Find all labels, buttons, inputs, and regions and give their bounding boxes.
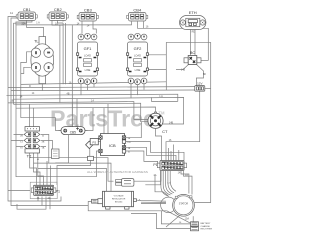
svg-text:4A: 4A	[48, 197, 51, 200]
svg-text:T2: T2	[27, 154, 32, 159]
wire corner step right	[152, 97, 178, 101]
wire ETH pin drop to BC	[190, 27, 192, 56]
wire ICB right pins to P1	[126, 122, 184, 165]
svg-text:RD: RD	[192, 31, 196, 34]
wire bus b6	[8, 102, 148, 120]
svg-text:CB1: CB1	[23, 7, 32, 12]
wire engine bottom drop	[192, 216, 194, 222]
svg-text:A: A	[37, 157, 39, 161]
svg-text:2B: 2B	[11, 99, 14, 102]
plug above voltage regulator	[116, 179, 134, 187]
current transformer CT	[148, 112, 163, 128]
voltage regulator left arm plug	[92, 199, 103, 204]
wire long run CB4 to left rail 4 big loop	[16, 22, 132, 177]
wire CB1 pin3 down	[16, 21, 32, 25]
svg-text:D: D	[29, 85, 31, 88]
wire bundle P1 to engine	[161, 171, 176, 196]
wire T2 right stubs	[41, 135, 53, 164]
engine terminal housing ETH	[180, 16, 206, 30]
wire bus b3 to 12V	[11, 89, 195, 92]
wire VR right tab leads to rotor	[137, 200, 167, 203]
wire P2 extra feeds	[47, 161, 51, 185]
wire from CB1 left tab to left rail down to bottom	[8, 17, 61, 202]
svg-text:LOAD: LOAD	[134, 53, 141, 57]
wire ICB top feeds	[104, 104, 108, 134]
wire diagonal to BCR	[167, 211, 191, 223]
svg-text:1 A: 1 A	[159, 95, 163, 98]
svg-text:4A: 4A	[154, 174, 157, 177]
voltage regulator VR	[103, 191, 137, 209]
svg-text:A: A	[139, 198, 141, 202]
wire bus b8 to CT top	[16, 107, 156, 113]
wire rail x60	[59, 25, 61, 103]
GFCI receptacle GF2	[127, 33, 149, 84]
idle control board ICB	[99, 134, 126, 156]
wire diamond bottom to small box	[89, 149, 91, 157]
GFCI receptacle GF1	[77, 33, 99, 84]
svg-text:LOAD: LOAD	[84, 53, 91, 57]
wire diagonal cross under engine	[166, 211, 185, 227]
label battery charge rectifier	[201, 222, 213, 231]
wire P2 left lead	[8, 190, 30, 192]
wire P1 feeds	[169, 145, 179, 161]
svg-text:VOLTAGE: VOLTAGE	[114, 195, 125, 198]
connector P2 mounting frame	[30, 182, 57, 198]
circuit breaker CB4	[127, 13, 148, 22]
twist lock receptacle TL	[31, 37, 54, 84]
svg-text:GF2: GF2	[134, 46, 143, 51]
wire P1 left bottom exit	[145, 171, 160, 185]
svg-text:BATTERY: BATTERY	[201, 222, 211, 225]
svg-text:P1: P1	[153, 163, 157, 167]
wire TL top feed	[27, 22, 44, 37]
wire CB3 pin1 to GF1 prong	[81, 22, 83, 34]
battery charge rectifier plug 1	[191, 222, 199, 226]
svg-text:CT: CT	[162, 129, 168, 134]
connector P1	[157, 161, 186, 171]
svg-text:1 A: 1 A	[36, 21, 40, 24]
wire CB5 top feeds	[72, 99, 77, 127]
svg-text:STATOR: STATOR	[179, 202, 189, 205]
svg-text:CB4: CB4	[133, 8, 142, 13]
wire bus b1	[21, 82, 167, 85]
wire bus b4	[7, 94, 178, 101]
connector P2	[31, 185, 56, 195]
small junction box below diamond	[88, 156, 94, 160]
circuit breaker CB1	[16, 12, 37, 21]
svg-text:14B: 14B	[169, 121, 174, 124]
wire GF2 right lower terminal	[148, 69, 167, 71]
wire GF1 bottom prong drops	[81, 82, 94, 95]
svg-text:BK: BK	[203, 73, 207, 76]
wire CB5 bottom drop	[55, 135, 68, 164]
wire ETH pin2 drop to BC	[194, 27, 196, 56]
wire CB5 right stub up	[85, 108, 93, 131]
wire TL lower-left elbow	[21, 67, 31, 73]
svg-text:CB2: CB2	[54, 7, 63, 12]
wire VR loop to bottom	[88, 202, 167, 211]
wire bus b5	[14, 97, 184, 124]
wire 12V right pin to rail	[205, 87, 211, 89]
wire BCR bottom lead	[131, 213, 191, 228]
svg-text:35A: 35A	[21, 23, 26, 26]
wire T2 left stubs	[11, 135, 24, 147]
svg-text:11: 11	[10, 11, 13, 15]
wire FS to ICB	[98, 141, 100, 143]
wire TL bottom tab drop	[41, 84, 43, 91]
circuit breaker CB3	[77, 13, 98, 22]
battery charge rectifier plug 2	[191, 227, 199, 231]
wire BCR top lead	[161, 211, 190, 224]
svg-text:LINE: LINE	[135, 68, 141, 72]
wire CB3 pin3 to GF1 right prong	[93, 22, 96, 34]
wire plug above VR left lead	[30, 158, 114, 182]
terminal block T2	[24, 127, 40, 153]
wire BC right tab to rail	[201, 60, 208, 62]
svg-text:ETH: ETH	[189, 10, 197, 15]
wire right box left edge	[165, 42, 167, 90]
svg-text:CB3: CB3	[84, 8, 93, 13]
wire P2 bottom drops	[17, 197, 50, 210]
wire from CB1 pin 1 down left rail 2 to bottom loop	[11, 18, 89, 206]
wire GF2 bottom prong drops	[131, 82, 144, 98]
svg-text:TL: TL	[34, 39, 39, 44]
12V accessory connector	[195, 86, 205, 92]
wire GF2 right terminal to box edge	[148, 54, 167, 56]
svg-text:B91234: B91234	[115, 202, 123, 204]
wire T2 bottom feeds to P2	[30, 153, 44, 185]
engine stator	[161, 194, 195, 216]
svg-text:12V: 12V	[197, 81, 202, 85]
svg-text:14B: 14B	[181, 68, 186, 71]
svg-text:CHARGE: CHARGE	[201, 225, 211, 228]
circuit breaker CB5	[59, 127, 88, 135]
wire vertical drop x63 to bus b1	[62, 23, 64, 84]
wire CB2 pin3 long drop to CB5	[63, 21, 72, 127]
wire plug above VR right lead to P1	[134, 171, 161, 181]
wire CB2 pin2 drop to bus	[58, 21, 64, 24]
wire 12V bottom drop and run to P1	[166, 91, 200, 160]
wire right box top	[166, 41, 210, 43]
wire P1 right drops into engine	[181, 171, 192, 195]
wire from CB1 pin 2 to rail 3	[14, 21, 27, 105]
wire CB2 pin1	[52, 21, 63, 26]
svg-text:BC: BC	[190, 50, 196, 55]
wire CB4 pin3 long run right to right rail	[144, 22, 209, 61]
svg-text:RECTIFIER: RECTIFIER	[201, 229, 213, 231]
wire rail x65	[64, 23, 66, 84]
svg-text:REGULATOR: REGULATOR	[112, 198, 126, 201]
wire small box to P2	[57, 161, 91, 186]
wire BC right lead to 12V	[196, 65, 203, 86]
wire CT bottom to P1	[156, 129, 162, 161]
wire bus b2 to 12V	[8, 87, 195, 88]
battery charge connector BC	[184, 56, 201, 65]
fuel solenoid FS	[90, 139, 98, 145]
wire right rail down to engine	[194, 42, 210, 202]
wire VR top feeds	[34, 163, 112, 191]
wire bus b7	[14, 103, 149, 122]
circuit breaker CB2	[47, 12, 68, 21]
wire left bundle vertical	[155, 175, 168, 195]
svg-text:FS: FS	[93, 140, 97, 144]
relay box A	[52, 149, 60, 159]
svg-text:P1: P1	[56, 189, 60, 193]
svg-text:LINE: LINE	[85, 68, 91, 72]
wire BC left lead	[176, 65, 189, 70]
wire CB4 pin2	[138, 22, 144, 29]
svg-text:ALL WIRES IN ALTERNATOR HARNES: ALL WIRES IN ALTERNATOR HARNESS	[87, 170, 148, 174]
wire T2 top feeds	[30, 104, 34, 126]
svg-text:GF1: GF1	[84, 46, 93, 51]
svg-text:CB5: CB5	[70, 131, 76, 135]
svg-text:4B: 4B	[67, 93, 70, 96]
diode diamond connector	[86, 141, 93, 148]
svg-text:15A: 15A	[185, 217, 190, 220]
wire TL upper-left elbow down rail	[21, 52, 32, 118]
svg-text:ICB: ICB	[109, 143, 116, 148]
wire CB5 left stub	[21, 118, 61, 131]
wire ICB left lower pin down	[97, 151, 101, 177]
